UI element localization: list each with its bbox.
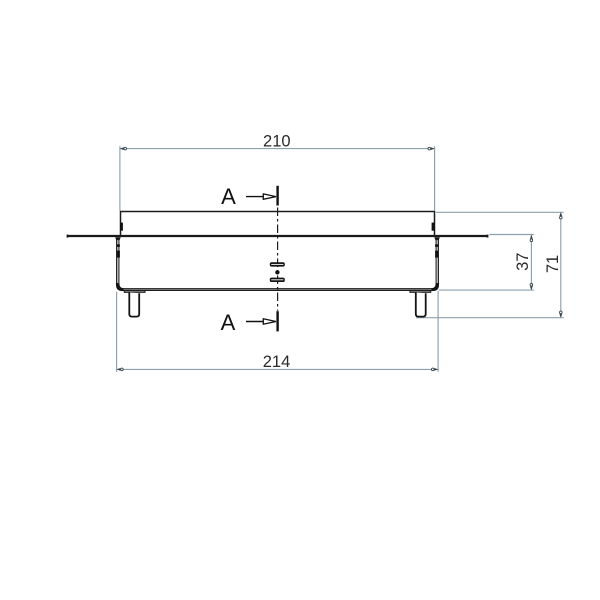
upper tray left tab [120, 223, 123, 231]
center jet dot [275, 270, 279, 274]
dimension 37 extension line bottom [439, 289, 534, 291]
mounting flange / table line [67, 235, 488, 237]
dimension 210 arrow left [120, 147, 124, 150]
dimension 37 extension line top [489, 234, 534, 236]
lower box corner weld right [432, 283, 438, 290]
left foot bracket [124, 291, 145, 293]
dimension 210 line [120, 148, 435, 150]
dimension 37 arrow bottom [530, 286, 533, 290]
section arrow A top [246, 196, 264, 198]
left wall slot marks [117, 244, 120, 247]
section tick A top [276, 186, 278, 206]
center jet lower capsule [270, 278, 285, 282]
dimension 214 line [117, 368, 439, 370]
upper tray outline [121, 212, 435, 236]
svg-text:214: 214 [263, 353, 291, 371]
svg-text:210: 210 [263, 132, 291, 150]
centerline (dash-dot) [277, 208, 279, 311]
flange corner wedge right [434, 237, 440, 240]
svg-text:37: 37 [514, 253, 532, 271]
dimension 71 arrow top [559, 212, 562, 216]
flange right end tick [487, 235, 489, 238]
right foot leg [416, 292, 426, 316]
svg-text:71: 71 [544, 255, 562, 273]
lower box outer contour [117, 238, 439, 290]
flange left end tick [67, 235, 69, 238]
right foot bracket [410, 291, 431, 293]
dimension 214 extension line left [116, 292, 118, 372]
dimension 210 extension line left [119, 146, 121, 210]
dimension 214 arrow left [117, 368, 121, 371]
dimension 71 extension line top [436, 211, 564, 213]
dimension 37 line [530, 235, 532, 290]
section tick A bottom [276, 311, 278, 331]
dimension 71 arrow bottom [559, 314, 562, 318]
section arrow A bottom [246, 321, 264, 323]
dimension 37 arrow top [530, 235, 533, 239]
dimension 210 arrow right [431, 147, 435, 150]
right wall slot marks [435, 244, 438, 247]
center jet upper capsule [270, 262, 285, 266]
left foot leg [129, 292, 139, 316]
dimension 214 arrow right [434, 368, 438, 371]
dimension 210 extension line right [434, 146, 436, 210]
dimension 71 extension line bottom [416, 317, 564, 319]
svg-text:A: A [221, 184, 236, 209]
dimension 71 line [560, 212, 562, 317]
dimension 214 extension line right [437, 291, 439, 372]
svg-text:A: A [221, 310, 236, 335]
flange corner wedge left [115, 237, 121, 240]
lower box corner weld left [117, 283, 123, 290]
upper tray right tab [432, 223, 435, 231]
lower box inner contour [119, 238, 436, 289]
